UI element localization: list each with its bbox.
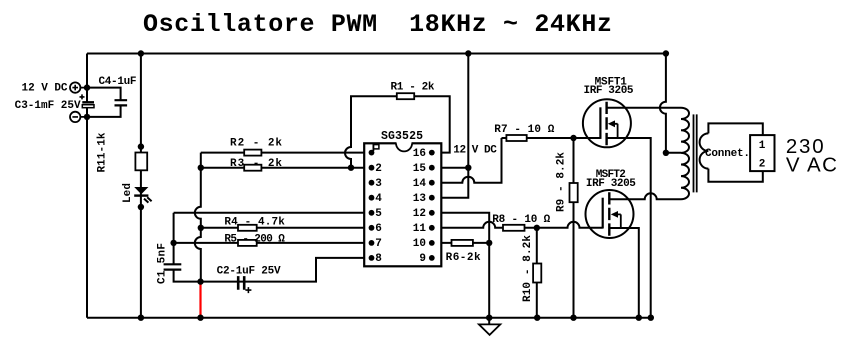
svg-text:C3-1mF 25V: C3-1mF 25V <box>15 100 81 112</box>
svg-text:R5 - 200 Ω: R5 - 200 Ω <box>224 234 285 246</box>
svg-text:R6-2k: R6-2k <box>446 252 481 264</box>
svg-text:1: 1 <box>759 140 766 152</box>
svg-text:16: 16 <box>413 148 426 160</box>
svg-text:R7 - 10 Ω: R7 - 10 Ω <box>494 124 554 136</box>
svg-text:R8 - 10 Ω: R8 - 10 Ω <box>492 214 550 226</box>
svg-text:Connet.: Connet. <box>705 148 750 160</box>
svg-text:IRF 3205: IRF 3205 <box>584 85 634 97</box>
svg-text:8: 8 <box>375 253 382 265</box>
svg-text:R3 - 2k: R3 - 2k <box>230 158 282 170</box>
svg-text:Led: Led <box>122 183 134 203</box>
svg-text:6: 6 <box>375 223 382 235</box>
svg-text:2: 2 <box>375 163 382 175</box>
svg-text:12 V DC: 12 V DC <box>453 145 497 157</box>
svg-text:R1 - 2k: R1 - 2k <box>391 82 435 94</box>
svg-text:11: 11 <box>413 223 427 235</box>
svg-text:IRF 3205: IRF 3205 <box>586 178 636 190</box>
svg-text:13: 13 <box>413 193 427 205</box>
svg-text:3: 3 <box>375 178 382 190</box>
svg-text:R11-1k: R11-1k <box>97 132 109 172</box>
svg-text:14: 14 <box>413 178 427 190</box>
svg-text:R10 - 8.2k: R10 - 8.2k <box>522 235 534 302</box>
svg-text:12: 12 <box>413 208 426 220</box>
svg-text:10: 10 <box>413 238 426 250</box>
svg-text:C4-1uF: C4-1uF <box>99 76 137 88</box>
svg-text:5: 5 <box>375 208 382 220</box>
svg-text:C1 5nF: C1 5nF <box>157 243 169 284</box>
svg-text:R9 - 8.2k: R9 - 8.2k <box>556 152 568 212</box>
svg-text:SG3525: SG3525 <box>381 130 423 143</box>
svg-text:15: 15 <box>413 163 427 175</box>
svg-text:V AC: V AC <box>786 154 837 177</box>
svg-text:4: 4 <box>375 193 382 205</box>
svg-text:C2-1uF 25V: C2-1uF 25V <box>217 266 281 278</box>
svg-text:2: 2 <box>759 158 766 170</box>
svg-text:12 V DC: 12 V DC <box>22 82 68 94</box>
svg-text:R2 - 2k: R2 - 2k <box>230 138 282 150</box>
svg-text:7: 7 <box>375 238 382 250</box>
svg-text:Oscillatore PWM 18KHz ~ 24KHz: Oscillatore PWM 18KHz ~ 24KHz <box>143 10 612 39</box>
svg-text:9: 9 <box>419 253 426 265</box>
svg-text:R4 - 4.7k: R4 - 4.7k <box>224 217 285 229</box>
